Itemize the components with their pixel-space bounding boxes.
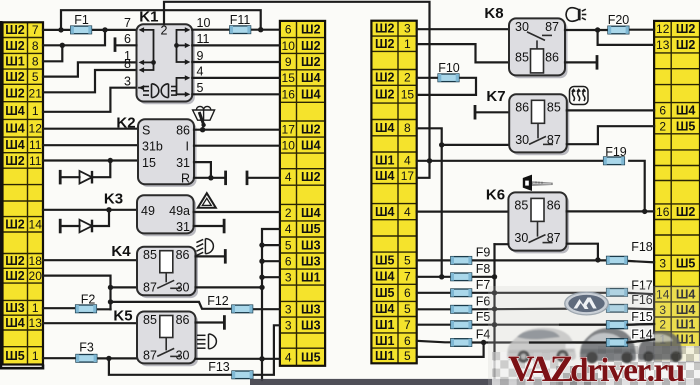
svg-text:S: S [142,124,150,138]
svg-text:10: 10 [197,16,211,30]
svg-text:Ш5: Ш5 [375,254,395,268]
svg-text:6: 6 [285,254,292,268]
wire K5 pin30 to Ш5-4 [196,358,280,360]
svg-text:16: 16 [656,205,670,219]
svg-text:Ш2: Ш2 [301,23,321,37]
wire F15 line over watermark [560,324,607,326]
svg-text:6: 6 [659,104,666,118]
fuse F3 [76,355,97,363]
terminal stub K7-86 [474,105,477,120]
svg-text:3: 3 [285,270,292,284]
svg-text:3: 3 [404,22,411,36]
svg-text:Ш2: Ш2 [5,218,25,232]
wire K1 pin2 top rail R1 to bus A [164,2,430,178]
junction Ш1-8 joins Ш2-8 [60,43,65,48]
wire Ш2-1 to K8 pin85 [417,44,509,62]
svg-text:5: 5 [32,70,39,84]
relay K1 (lamp check relay) with pins 7,6,1,8,3,2,10,11,9,4,5 [124,9,210,105]
fuse F8 [451,273,472,281]
terminal stub K5-86 [223,315,226,330]
svg-text:87: 87 [143,348,157,362]
svg-text:4: 4 [285,170,292,184]
svg-text:Ш2: Ш2 [301,170,321,184]
svg-text:17: 17 [282,122,296,136]
svg-text:11: 11 [29,138,42,152]
svg-text:F2: F2 [81,292,96,306]
svg-text:15: 15 [401,88,415,102]
svg-text:5: 5 [285,238,292,252]
svg-text:85: 85 [514,198,528,212]
wire V4 to K4 pin 87 [111,286,138,288]
svg-text:3: 3 [285,303,292,317]
svg-text:Ш4: Ш4 [375,270,395,284]
svg-text:3: 3 [285,318,292,332]
wire Ш2-20 riser V4 [43,276,111,310]
relay K4 (fog lamp relay) pins 85,86,87,30 [137,247,198,298]
svg-text:F15: F15 [631,310,653,324]
svg-text:Ш1: Ш1 [375,153,395,167]
svg-text:K3: K3 [104,191,123,208]
junction R/31 node [208,175,213,180]
svg-text:20: 20 [29,269,43,283]
junction V2-F7 [492,290,497,295]
connector X3 middle-right (label|num) [371,21,416,364]
svg-text:85: 85 [143,248,157,262]
symbol low beam lamp [197,334,216,349]
junction B-F8 [439,274,444,279]
wire Ш2-2 to F10 to Ш2-15 [417,77,438,79]
svg-text:Ш2: Ш2 [375,88,395,102]
svg-text:7: 7 [124,16,131,30]
svg-text:Ш4: Ш4 [301,71,321,85]
svg-text:Ш2: Ш2 [301,55,321,69]
svg-text:Ш5: Ш5 [375,286,395,300]
svg-text:Ш2: Ш2 [676,205,696,219]
svg-text:85: 85 [143,313,157,327]
terminal stub K1 pin6 [114,37,117,52]
svg-text:2: 2 [404,71,411,85]
svg-text:13: 13 [656,38,670,52]
svg-text:Ш4: Ш4 [375,302,395,316]
svg-text:Ш3: Ш3 [301,318,321,332]
wire K8-87 node down to Ш2-13 [598,30,655,45]
svg-text:Ш5: Ш5 [301,350,321,364]
wire K4 pin86 to stub [196,255,225,257]
relay K8 (horn relay) pins 30,87,85,86 [509,18,568,78]
fuse F19 [604,157,625,165]
wire K1 pin5 to Ш4-16 [192,93,280,95]
junction V4 to K4-87 [108,285,113,290]
svg-text:2: 2 [161,24,168,38]
wire Ш3-1 to F2 to V4 [43,307,76,309]
svg-text:6: 6 [285,23,292,37]
svg-text:86: 86 [515,100,529,114]
svg-text:5: 5 [404,302,411,316]
fuse F14 [607,339,628,347]
wire F14 to Ш1-1 over watermark [627,339,654,342]
wire V2 bus from K6 pin30 down [495,243,509,245]
svg-text:Ш2: Ш2 [301,122,321,136]
junction K6-87/F18 node [595,257,600,262]
svg-text:4: 4 [404,153,411,167]
svg-text:4: 4 [285,350,292,364]
junction V2-F5 [492,322,497,327]
fuse F1 [71,26,92,34]
svg-text:16: 16 [282,87,296,101]
wire top rail R2 from F1-node to F11-node [61,10,261,30]
svg-text:Ш3: Ш3 [5,301,25,315]
svg-text:Ш3: Ш3 [301,254,321,268]
wire Ш1-8 riser [43,45,62,61]
svg-text:9: 9 [285,55,292,69]
svg-text:3: 3 [659,256,666,270]
wire Ш5-6 to F7 to F17 to Ш4-14 [417,292,451,294]
wire V3 to Ш3-5 [262,244,280,246]
wire connector bar to Ш2-4 [248,177,280,179]
wire K5 pin86 to stub [196,321,224,323]
svg-text:Ш2: Ш2 [676,38,696,52]
fuse F13 [232,371,253,379]
svg-text:F20: F20 [608,13,630,27]
junction V3-Ш1-3 [259,275,264,280]
svg-text:86: 86 [545,50,559,64]
svg-text:Ш2: Ш2 [375,71,395,85]
svg-text:F19: F19 [605,145,627,159]
fuse F14 (over watermark) [607,339,628,347]
fuse F20 [608,26,629,34]
svg-text:Ш2: Ш2 [5,86,25,100]
junction K8-87 node [595,27,600,32]
terminal stub K3-31 [223,219,226,234]
junction V2-F8 [492,274,497,279]
svg-text:Ш4: Ш4 [301,206,321,220]
terminal bar pair (inline connector) after K2-R [224,171,227,186]
connector X4 right (num|label) [654,21,700,362]
svg-text:14: 14 [29,218,43,232]
fuse F11 [230,26,251,34]
svg-text:F13: F13 [208,360,230,374]
svg-text:Ш4: Ш4 [375,121,395,135]
terminal stub K4-86 [224,249,227,264]
wire F15 to Ш1-2 over watermark [627,323,654,326]
svg-text:R: R [181,172,190,186]
svg-text:Ш1: Ш1 [5,55,25,69]
wire Ш4-5 to F6 to F16 to Ш4-3 [417,308,451,310]
junction F4 output node [481,340,486,345]
svg-text:6: 6 [124,32,131,46]
svg-text:31: 31 [176,220,190,234]
svg-text:7: 7 [404,270,411,284]
svg-text:Ш4: Ш4 [301,138,321,152]
wire Ш4-11 to K2 pin 31b [43,144,138,146]
svg-text:7: 7 [404,318,411,332]
svg-text:5: 5 [197,81,204,95]
svg-text:10: 10 [282,39,296,53]
svg-text:4: 4 [404,205,411,219]
wire Ш1-6 to F4 to F14 to Ш1-1 [417,341,451,343]
wire K8 pin86 to stub [565,61,596,63]
svg-text:30: 30 [176,280,190,294]
bus V3 (right of K4/K5) feeding Ш5-4,Ш3-5,Ш3-6,Ш1-3 [262,229,280,380]
svg-text:Ш4: Ш4 [5,138,25,152]
svg-text:K7: K7 [486,88,505,105]
junction F19/K6-86 node [642,209,647,214]
wire K1 pin9 to Ш2-9 [192,61,280,63]
wire K7 pin85 to Ш4-6 [567,109,654,111]
wire Ш2-5 to K1 pin1 [43,62,137,76]
wire Ш2-21 to K1 pin8 [43,70,137,92]
svg-text:I: I [186,140,189,154]
svg-text:F11: F11 [230,13,251,27]
wire K6 pin87 down to F18 node [567,244,598,260]
connector X2 middle-left (num|label) [280,21,325,366]
svg-text:K4: K4 [111,243,131,260]
junction V2-F6 [492,306,497,311]
junction V3-K4-30 [259,285,264,290]
wire K4 pin30 to bus V3 [196,286,263,288]
wire Ш4-12 to K2 pin S [43,128,138,130]
svg-text:2: 2 [285,206,292,220]
wire Ш4-1 to K1 pin3 [43,88,137,112]
symbol fog lamp [196,239,213,256]
wire Ш2-18 to K4 pin 85 [43,259,137,261]
junction V4 to F12 [108,299,113,304]
wire K1 pin10 to F11 to Ш2-6 [192,29,230,31]
junction F1 output node [102,27,107,32]
wire K2 pin R to connector stub [194,177,224,179]
junction wiper symbol tap [200,127,205,132]
wire Ш4-4 to K6 pin85 [417,211,509,213]
relay K6 (starter relay) pins 85,86,30,87 [508,192,569,253]
wire K3 pin49a to Ш4-2 [194,211,280,213]
svg-text:85: 85 [515,50,529,64]
svg-text:Ш2: Ш2 [375,37,395,51]
svg-text:Ш2: Ш2 [5,269,25,283]
wire Ш5-1 to F3 to K5 pin 87 [43,357,76,359]
svg-text:86: 86 [547,198,561,212]
svg-text:8: 8 [32,55,39,69]
svg-text:F10: F10 [438,61,460,75]
connector X1 left (labels Ш#|pin) [3,22,44,364]
fuse F9 [451,257,472,265]
svg-text:7: 7 [32,23,39,37]
svg-text:31b: 31b [142,140,163,154]
svg-text:21: 21 [29,86,43,100]
svg-text:F8: F8 [476,262,491,276]
fuse F17 [607,289,628,297]
svg-text:30: 30 [515,133,529,147]
svg-text:86: 86 [176,313,190,327]
svg-text:Ш2: Ш2 [676,22,696,36]
fuse F6 [451,306,472,314]
svg-text:49a: 49a [169,204,190,218]
svg-text:Ш3: Ш3 [301,238,321,252]
svg-text:Ш3: Ш3 [301,303,321,317]
svg-text:VAZ: VAZ [508,349,573,385]
diode VD2 with terminal stub [59,210,109,234]
svg-text:K6: K6 [486,187,505,204]
wire Ш1-7 to F5 to F15 to Ш1-2 [417,324,451,326]
svg-text:Ш5: Ш5 [301,222,321,236]
fuse F5 [451,321,472,329]
junction F11 output [258,27,263,32]
svg-text:11: 11 [29,154,42,168]
svg-text:driver.ru: driver.ru [570,352,685,385]
svg-text:1: 1 [32,301,39,315]
wire bottom rail to F13 to Ш3-3 [109,358,232,374]
wire bus B to K7 pin30 [442,144,510,146]
symbol warning triangle [198,193,216,208]
junction V3-Ш3-6 [259,259,264,264]
wire K2 pin86 to Ш2-17 [194,129,280,131]
svg-text:12: 12 [656,22,670,36]
wire K6 pin86 to Ш2-16 [567,210,655,212]
svg-text:49: 49 [141,204,155,218]
junction B-K7-30 [439,142,444,147]
svg-text:K8: K8 [484,5,503,22]
junction F1 input node [58,27,63,32]
wire Ш2-11 to K2 pin 15 [43,159,138,161]
svg-text:Ш5: Ш5 [676,119,696,133]
svg-text:85: 85 [547,100,561,114]
svg-text:4: 4 [285,222,292,236]
fuse F12 [232,305,253,313]
svg-text:Ш4: Ш4 [5,316,25,330]
junction bus A to Ш1-4 line [427,158,432,163]
svg-text:F9: F9 [476,246,491,260]
wire V3 to Ш3-6 [262,260,280,262]
junction V3-Ш3-5 [259,242,264,247]
svg-text:Ш4: Ш4 [5,122,25,136]
svg-text:F3: F3 [79,341,94,355]
svg-text:30: 30 [515,20,529,34]
svg-text:Ш1: Ш1 [375,349,395,363]
svg-text:Ш2: Ш2 [301,39,321,53]
svg-text:86: 86 [176,124,190,138]
wire Ш5-5 to F9 to F18 to Ш5-3 [417,259,451,261]
svg-text:10: 10 [282,138,296,152]
svg-text:1: 1 [404,37,411,51]
svg-text:Ш4: Ш4 [375,169,395,183]
svg-text:6: 6 [404,286,411,300]
wire Ш4-7 to F8 to V2 [417,276,451,278]
junction diode VD2 tap [106,207,111,212]
wire K7 pin87 up to Ш5-2 [567,126,654,144]
fuse F15 [607,321,628,329]
svg-text:Ш2: Ш2 [375,22,395,36]
connector X1 outer frame [1,22,43,368]
wire Ш1-4 to F19 to K6-86 node [417,160,604,162]
svg-text:13: 13 [29,316,43,330]
junction K5-87 rail node [106,356,111,361]
svg-text:Ш4: Ш4 [5,104,25,118]
svg-text:Ш5: Ш5 [676,256,696,270]
svg-text:2: 2 [659,119,666,133]
svg-text:K2: K2 [116,115,135,132]
svg-text:F1: F1 [74,13,89,27]
svg-text:F12: F12 [207,294,229,308]
symbol windshield wiper on K2-86 wire [193,106,215,129]
diode VD1 with terminal stub [59,161,111,185]
wire F4-F14 line over watermark [530,341,607,343]
svg-text:30: 30 [176,348,190,362]
svg-text:F18: F18 [631,240,653,254]
svg-text:18: 18 [29,254,43,268]
wire Ш2-3 to K8 pin30 [417,28,509,30]
wire K1 pin11 to Ш2-10 [192,44,280,46]
wire Ш4-8 down bus B [417,128,442,276]
svg-text:8: 8 [32,39,39,53]
relay K7 (rear window defogger relay) pins 86,85,30,87 [509,94,569,155]
svg-text:1: 1 [32,349,39,363]
svg-text:Ш5: Ш5 [5,349,25,363]
svg-text:31: 31 [176,156,190,170]
wire Ш4-13 to K5 pin 85 [43,322,137,324]
relay K5 (low beam relay) pins 85,86,87,30 [137,312,198,367]
svg-text:3: 3 [124,75,131,89]
junction K5-30 / V3 bottom [259,356,264,361]
svg-text:Ш2: Ш2 [5,39,25,53]
fuse F7 [451,289,472,297]
svg-text:K5: K5 [113,308,132,325]
svg-text:11: 11 [197,32,210,46]
wire K1 pin4 to Ш4-15 [192,77,280,79]
wire F4 node to Ш1-5 [417,343,484,357]
svg-text:12: 12 [29,122,43,136]
relay K2 (wiper relay) pins S,86,31b,I,15,31,R [116,115,196,187]
svg-text:Ш4: Ш4 [375,205,395,219]
svg-text:Ш2: Ш2 [5,23,25,37]
symbol heated rear window [570,87,589,105]
svg-text:17: 17 [401,169,415,183]
fuse F18 [607,256,628,264]
fuse F16 [607,305,628,313]
svg-text:87: 87 [143,280,157,294]
svg-text:87: 87 [545,20,559,34]
relay K3 (hazard flasher) pins 49,49a,31 [104,191,196,237]
svg-text:86: 86 [176,248,190,262]
watermark VAZdriver.ru with cars, checkered flag and Lada logo [250,286,700,385]
svg-text:15: 15 [282,71,296,85]
svg-text:Ш1: Ш1 [375,318,395,332]
svg-text:Ш2: Ш2 [5,254,25,268]
symbol ignition key [523,175,553,191]
wire K2 pin31 down to R node [194,162,211,178]
svg-text:8: 8 [124,57,131,71]
svg-text:Ш1: Ш1 [301,270,321,284]
svg-text:5: 5 [404,349,411,363]
svg-text:Ш1: Ш1 [375,334,395,348]
symbol horn [566,8,586,22]
svg-text:15: 15 [142,156,156,170]
svg-text:Ш2: Ш2 [5,154,25,168]
svg-text:8: 8 [404,121,411,135]
fuse F2 [76,305,97,313]
fuse F4 [451,339,472,347]
svg-text:Ш2: Ш2 [5,70,25,84]
svg-text:30: 30 [514,231,528,245]
svg-text:9: 9 [197,49,204,63]
svg-text:Ш4: Ш4 [676,104,696,118]
wire K2 pin I to Ш4-10 [194,145,280,147]
svg-text:K1: K1 [139,9,158,26]
terminal stub K8-86 [596,55,599,70]
wire Ш2-8 bus [43,30,105,45]
fuse F15 (over watermark) [607,321,628,329]
wire Ш2-7 to F1 to K1 pin7 [43,29,71,31]
fuse F10 [438,74,459,82]
svg-text:6: 6 [404,334,411,348]
